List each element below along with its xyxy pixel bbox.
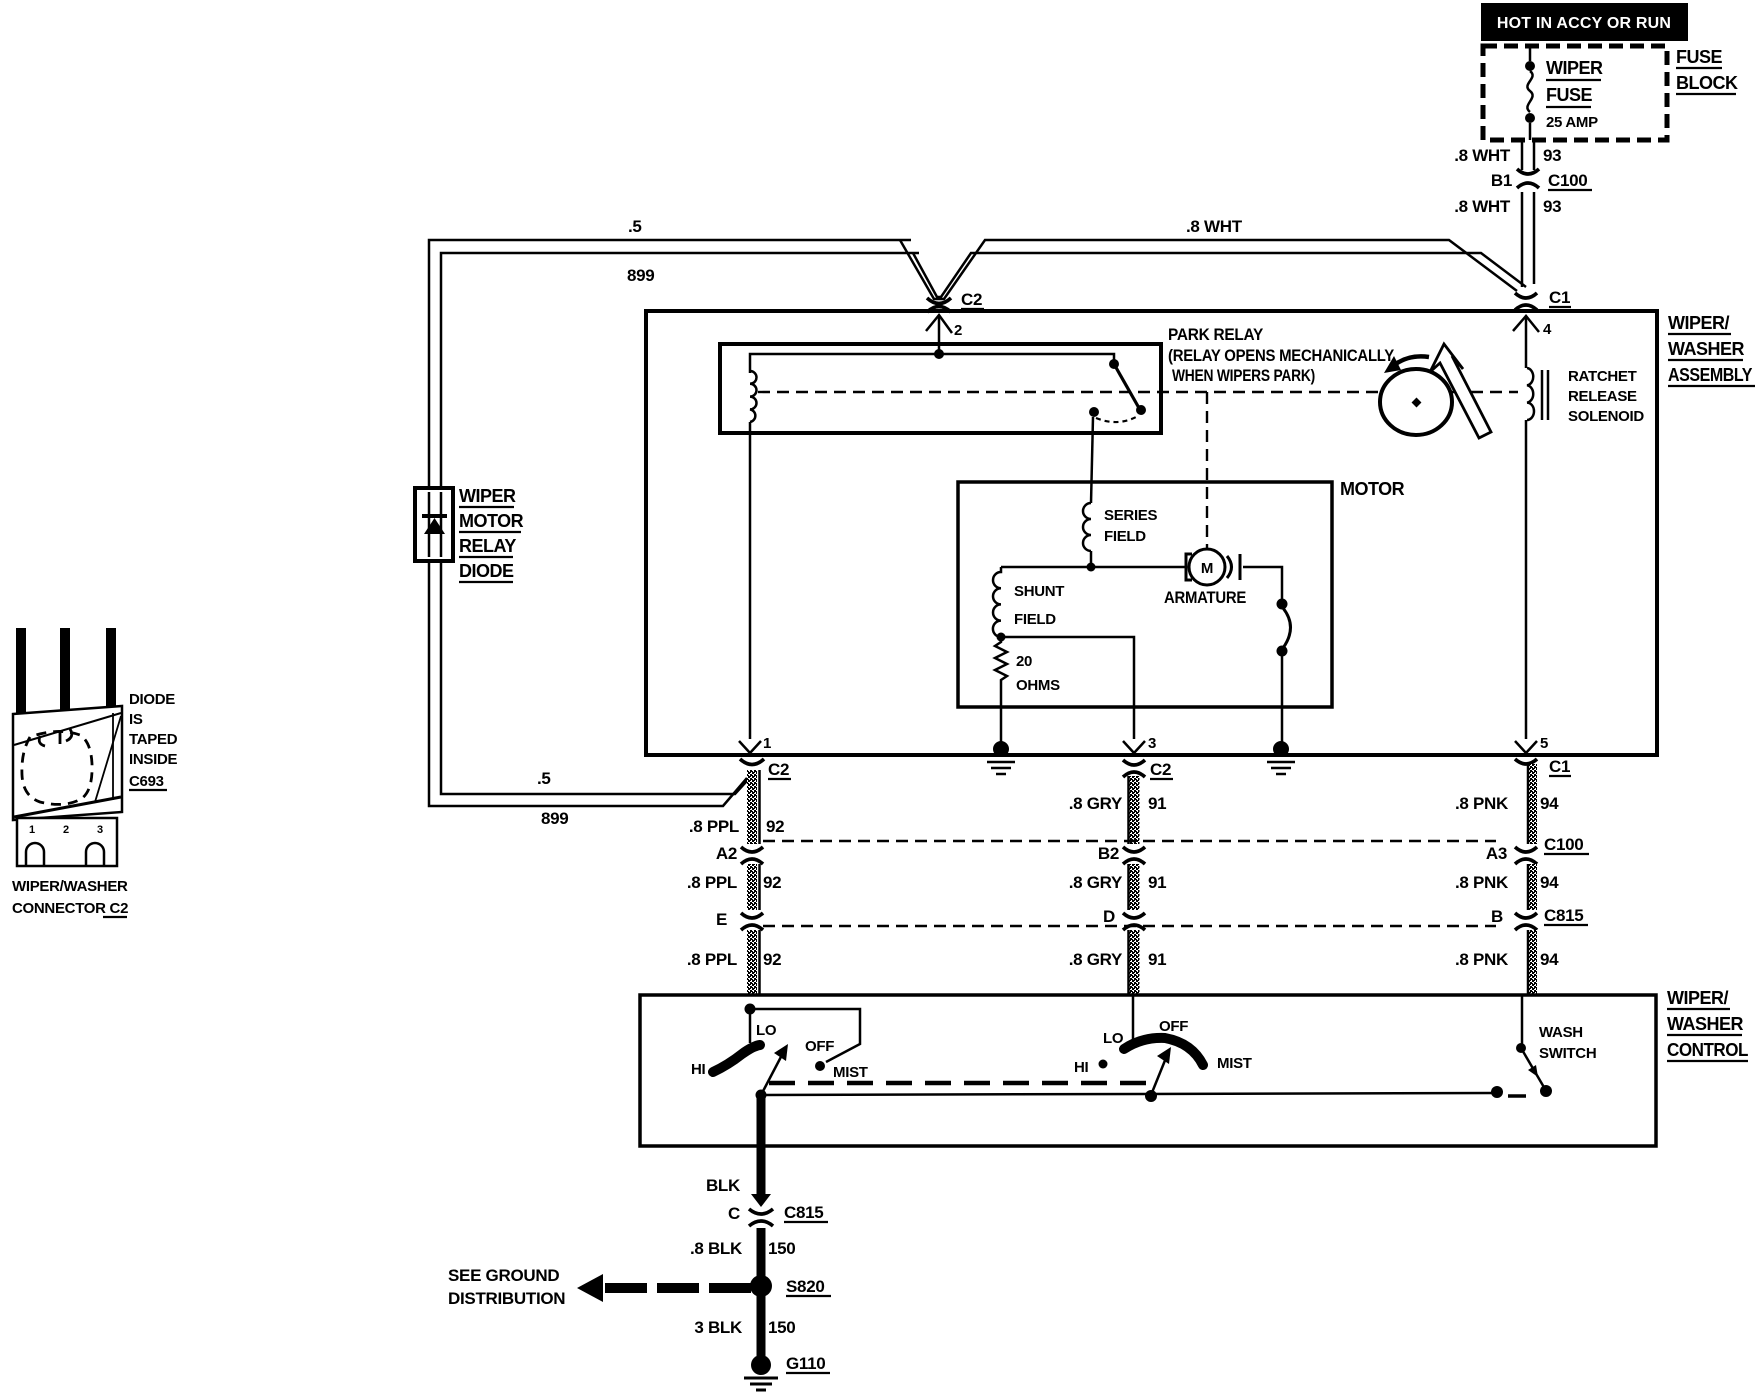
svg-text:M: M bbox=[1201, 560, 1213, 577]
svg-text:RELEASE: RELEASE bbox=[1568, 388, 1637, 405]
svg-text:C100: C100 bbox=[1544, 835, 1583, 854]
svg-text:.8 PPL: .8 PPL bbox=[689, 817, 739, 836]
svg-text:S820: S820 bbox=[786, 1277, 825, 1296]
wash switch bbox=[1508, 995, 1596, 1097]
wire .8 GRY 91 seg2 bbox=[1069, 864, 1167, 910]
svg-text:20: 20 bbox=[1016, 653, 1032, 670]
connector B1 C100 bbox=[1491, 169, 1592, 190]
park relay switch bbox=[1089, 359, 1146, 422]
park relay box bbox=[720, 344, 1161, 433]
motor box bbox=[958, 482, 1332, 707]
svg-text:WASHER: WASHER bbox=[1668, 339, 1745, 359]
connector C C815 bbox=[728, 1194, 828, 1226]
pin 5 arrow bbox=[1515, 735, 1548, 753]
svg-text:3 BLK: 3 BLK bbox=[694, 1318, 743, 1337]
fuse block dashed box bbox=[1483, 46, 1667, 140]
svg-text:94: 94 bbox=[1540, 794, 1559, 813]
svg-text:B2: B2 bbox=[1098, 844, 1119, 863]
svg-text:91: 91 bbox=[1148, 950, 1166, 969]
connector C2 pin 3 bbox=[1123, 760, 1173, 779]
wire resistor to ground bbox=[1000, 684, 1003, 745]
wiper/washer connector C2 illustration bbox=[13, 628, 122, 866]
svg-text:.8 GRY: .8 GRY bbox=[1069, 873, 1123, 892]
svg-text:1: 1 bbox=[763, 735, 771, 752]
svg-text:FIELD: FIELD bbox=[1014, 611, 1056, 628]
svg-text:TAPED: TAPED bbox=[129, 731, 178, 748]
svg-text:.8 PPL: .8 PPL bbox=[687, 873, 737, 892]
svg-text:A2: A2 bbox=[716, 844, 737, 863]
taped diode blob bbox=[22, 731, 92, 804]
svg-text:2: 2 bbox=[954, 322, 962, 339]
svg-text:.8 PPL: .8 PPL bbox=[687, 950, 737, 969]
mechanical dashed link bbox=[758, 392, 1518, 548]
svg-text:92: 92 bbox=[763, 950, 781, 969]
svg-text:4: 4 bbox=[1543, 321, 1552, 338]
wire coil to pin 1 bbox=[749, 422, 752, 739]
svg-text:C2: C2 bbox=[961, 290, 982, 309]
shunt field coil bbox=[993, 567, 1064, 642]
svg-text:.8 GRY: .8 GRY bbox=[1069, 950, 1123, 969]
series field coil bbox=[1083, 503, 1158, 567]
svg-text:1: 1 bbox=[29, 824, 35, 836]
svg-text:INSIDE: INSIDE bbox=[129, 751, 178, 768]
svg-text:WASH: WASH bbox=[1539, 1024, 1583, 1041]
svg-text:91: 91 bbox=[1148, 873, 1166, 892]
svg-text:150: 150 bbox=[768, 1239, 795, 1258]
svg-text:C2: C2 bbox=[1150, 760, 1171, 779]
wire .8 PPL 92 seg2 bbox=[687, 864, 781, 910]
svg-text:C1: C1 bbox=[1549, 288, 1570, 307]
svg-text:SHUNT: SHUNT bbox=[1014, 583, 1064, 600]
wire .8 PNK 94 seg2 bbox=[1455, 864, 1559, 910]
svg-text:RELAY: RELAY bbox=[459, 536, 516, 556]
svg-text:HI: HI bbox=[691, 1061, 706, 1078]
svg-text:WIPER/WASHER: WIPER/WASHER bbox=[12, 878, 128, 895]
park relay wire bbox=[750, 349, 1114, 373]
svg-text:BLK: BLK bbox=[706, 1176, 741, 1195]
svg-text:WASHER: WASHER bbox=[1667, 1014, 1744, 1034]
svg-text:HOT IN ACCY OR RUN: HOT IN ACCY OR RUN bbox=[1497, 15, 1671, 32]
svg-text:5: 5 bbox=[1540, 735, 1548, 752]
ground G-motor2 bbox=[1267, 741, 1295, 774]
pin 1 arrow bbox=[739, 735, 771, 753]
svg-text:B1: B1 bbox=[1491, 171, 1512, 190]
mechanical dashed link switches bbox=[769, 1081, 1148, 1086]
wire .8 WHT 93 fuse to C100 bbox=[1454, 140, 1561, 170]
svg-text:WIPER: WIPER bbox=[459, 486, 516, 506]
svg-text:899: 899 bbox=[541, 809, 568, 828]
wire .8 PNK 94 seg3 bbox=[1455, 930, 1559, 995]
svg-text:150: 150 bbox=[768, 1318, 795, 1337]
connector C1 pin 4 bbox=[1515, 288, 1571, 310]
wiper/washer connector C2 caption bbox=[12, 878, 128, 917]
ratchet release solenoid bbox=[1527, 368, 1644, 425]
wiper switch 1 bbox=[691, 1004, 868, 1096]
svg-text:OFF: OFF bbox=[1159, 1018, 1188, 1035]
wire .8 WHT 93 C100 to C1 bbox=[1454, 192, 1561, 287]
svg-text:.8 PNK: .8 PNK bbox=[1455, 950, 1509, 969]
svg-text:.8 WHT: .8 WHT bbox=[1454, 197, 1511, 216]
ground G110 bbox=[744, 1354, 830, 1390]
svg-text:2: 2 bbox=[63, 824, 69, 836]
svg-text:94: 94 bbox=[1540, 873, 1559, 892]
connector C2 pin 1 bbox=[740, 759, 791, 779]
svg-text:ARMATURE: ARMATURE bbox=[1164, 588, 1246, 607]
svg-text:C100: C100 bbox=[1548, 171, 1587, 190]
pin 4 arrow bbox=[1513, 316, 1552, 368]
svg-text:C2: C2 bbox=[768, 760, 789, 779]
fuse block label bbox=[1676, 47, 1738, 94]
svg-text:MIST: MIST bbox=[1217, 1055, 1252, 1072]
svg-text:DIODE: DIODE bbox=[129, 691, 175, 708]
svg-text:899: 899 bbox=[627, 266, 654, 285]
resistor 20 ohms bbox=[995, 637, 1060, 694]
svg-text:C693: C693 bbox=[129, 773, 164, 790]
pin 2 arrow bbox=[926, 315, 962, 354]
wire .8 GRY 91 seg3 bbox=[1069, 930, 1167, 995]
connector C815 dashed body bbox=[763, 925, 1496, 927]
svg-text:MOTOR: MOTOR bbox=[459, 511, 524, 531]
svg-text:FUSE: FUSE bbox=[1546, 85, 1593, 105]
wire .8 BLK 150 bbox=[690, 1228, 796, 1278]
svg-text:SERIES: SERIES bbox=[1104, 507, 1158, 524]
svg-text:.8 WHT: .8 WHT bbox=[1454, 146, 1511, 165]
wire .8 GRY 91 seg1 bbox=[1069, 776, 1167, 844]
svg-text:SEE GROUND: SEE GROUND bbox=[448, 1266, 559, 1285]
wire armature to ground bbox=[1243, 567, 1291, 745]
svg-text:CONNECTOR C2: CONNECTOR C2 bbox=[12, 900, 128, 917]
svg-text:25 AMP: 25 AMP bbox=[1546, 114, 1598, 131]
wire field bus bbox=[1001, 563, 1186, 572]
svg-text:OFF: OFF bbox=[805, 1038, 834, 1055]
wiper/washer control box bbox=[640, 995, 1656, 1146]
svg-text:PARK RELAY: PARK RELAY bbox=[1168, 325, 1264, 344]
svg-text:(RELAY OPENS MECHANICALLY: (RELAY OPENS MECHANICALLY bbox=[1168, 346, 1395, 365]
svg-text:B: B bbox=[1491, 907, 1503, 926]
wire .8 PPL 92 seg1 bbox=[689, 770, 784, 844]
connector A3 C100 bbox=[1486, 835, 1589, 864]
svg-text:RATCHET: RATCHET bbox=[1568, 368, 1637, 385]
hot in accy or run header bbox=[1481, 3, 1688, 41]
svg-text:92: 92 bbox=[766, 817, 784, 836]
park cam bbox=[1380, 356, 1452, 435]
svg-text:OHMS: OHMS bbox=[1016, 677, 1060, 694]
svg-text:CONTROL: CONTROL bbox=[1667, 1040, 1748, 1060]
wiper motor relay diode D1 bbox=[415, 486, 524, 582]
svg-text:BLOCK: BLOCK bbox=[1676, 73, 1738, 93]
wiper switch 2 bbox=[1074, 995, 1252, 1095]
armature M1 bbox=[1164, 549, 1246, 607]
svg-text:.8 BLK: .8 BLK bbox=[690, 1239, 743, 1258]
svg-text:MOTOR: MOTOR bbox=[1340, 479, 1405, 499]
svg-text:WIPER/: WIPER/ bbox=[1667, 988, 1729, 1008]
svg-text:LO: LO bbox=[756, 1022, 777, 1039]
wiper/washer assembly box bbox=[646, 311, 1657, 755]
park relay label bbox=[1168, 325, 1395, 385]
svg-text:G110: G110 bbox=[786, 1354, 825, 1373]
switch common wire bbox=[756, 1086, 1504, 1102]
connector B C815 bbox=[1491, 906, 1588, 930]
svg-text:FIELD: FIELD bbox=[1104, 528, 1146, 545]
mechanical linkage arrow bbox=[1430, 344, 1491, 438]
connector E bbox=[716, 910, 763, 930]
svg-text:HI: HI bbox=[1074, 1059, 1089, 1076]
wire .8 PNK 94 seg1 bbox=[1455, 764, 1559, 844]
svg-text:FUSE: FUSE bbox=[1676, 47, 1723, 67]
svg-text:91: 91 bbox=[1148, 794, 1166, 813]
connector C100 dashed body bbox=[763, 840, 1496, 842]
svg-text:E: E bbox=[716, 910, 727, 929]
wiper/washer control label bbox=[1667, 988, 1748, 1061]
svg-text:.8 PNK: .8 PNK bbox=[1455, 873, 1509, 892]
wire park relay to series field bbox=[1091, 417, 1093, 503]
svg-text:.5: .5 bbox=[537, 769, 551, 788]
svg-text:WIPER/: WIPER/ bbox=[1668, 313, 1730, 333]
wire solenoid to pin 5 bbox=[1525, 420, 1528, 739]
svg-text:94: 94 bbox=[1540, 950, 1559, 969]
svg-text:.8 WHT: .8 WHT bbox=[1186, 217, 1243, 236]
svg-text:SWITCH: SWITCH bbox=[1539, 1045, 1596, 1062]
svg-text:.8 PNK: .8 PNK bbox=[1455, 794, 1509, 813]
wire BLK control to C815 bbox=[706, 1097, 766, 1197]
diode is taped inside C693 note bbox=[129, 691, 178, 790]
ground G-motor1 bbox=[987, 741, 1015, 774]
see ground distribution arrow bbox=[448, 1266, 751, 1308]
svg-text:C: C bbox=[728, 1204, 740, 1223]
svg-text:93: 93 bbox=[1543, 197, 1561, 216]
connector body bbox=[13, 706, 122, 820]
svg-text:92: 92 bbox=[763, 873, 781, 892]
connector pin wires bbox=[16, 628, 26, 713]
svg-text:C815: C815 bbox=[784, 1203, 823, 1222]
svg-text:.5: .5 bbox=[628, 217, 642, 236]
wire .8 PPL 92 seg3 bbox=[687, 930, 781, 995]
connector A2 bbox=[716, 844, 763, 864]
connector B2 bbox=[1098, 844, 1145, 864]
svg-text:3: 3 bbox=[1148, 735, 1156, 752]
svg-text:SOLENOID: SOLENOID bbox=[1568, 408, 1644, 425]
svg-text:MIST: MIST bbox=[833, 1064, 868, 1081]
wiper fuse 25 amp bbox=[1525, 46, 1603, 140]
wiper/washer assembly label bbox=[1668, 313, 1755, 386]
connector C1 pin 5 bbox=[1515, 757, 1571, 776]
connector D bbox=[1103, 907, 1145, 930]
svg-text:WIPER: WIPER bbox=[1546, 58, 1603, 78]
connector C2 pin 2 bbox=[927, 290, 984, 312]
svg-text:C815: C815 bbox=[1544, 906, 1583, 925]
connector lower shell bbox=[17, 818, 117, 866]
wire shunt to pin 3 bbox=[1001, 637, 1134, 739]
park relay coil bbox=[750, 371, 757, 422]
svg-text:3: 3 bbox=[97, 824, 103, 836]
svg-text:ASSEMBLY: ASSEMBLY bbox=[1668, 365, 1752, 385]
svg-text:IS: IS bbox=[129, 711, 143, 728]
wire .8 WHT top run bbox=[429, 217, 1526, 828]
svg-text:DISTRIBUTION: DISTRIBUTION bbox=[448, 1289, 565, 1308]
splice S820 bbox=[750, 1275, 831, 1297]
pin 3 arrow bbox=[1123, 735, 1156, 753]
svg-text:LO: LO bbox=[1103, 1030, 1124, 1047]
svg-text:D: D bbox=[1103, 907, 1115, 926]
svg-text:93: 93 bbox=[1543, 146, 1561, 165]
svg-text:WHEN WIPERS PARK): WHEN WIPERS PARK) bbox=[1172, 366, 1315, 385]
svg-text:.8 GRY: .8 GRY bbox=[1069, 794, 1123, 813]
wire 3 BLK 150 bbox=[694, 1296, 795, 1356]
svg-text:DIODE: DIODE bbox=[459, 561, 514, 581]
svg-text:C1: C1 bbox=[1549, 757, 1570, 776]
svg-text:A3: A3 bbox=[1486, 844, 1507, 863]
